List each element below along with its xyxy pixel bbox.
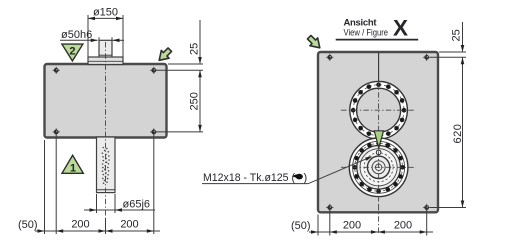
svg-text:25: 25 (451, 29, 463, 41)
svg-text:X: X (393, 16, 408, 41)
svg-text:2: 2 (69, 46, 75, 58)
svg-text:620: 620 (452, 124, 464, 144)
svg-text:(50): (50) (291, 220, 311, 232)
svg-text:200: 200 (394, 220, 412, 232)
svg-text:M12x18 - Tk.ø125 (: M12x18 - Tk.ø125 ( (203, 172, 295, 184)
svg-text:ø150: ø150 (93, 7, 118, 19)
svg-text:200: 200 (71, 219, 89, 231)
svg-text:ø65j6: ø65j6 (123, 199, 151, 211)
svg-text:View / Figure: View / Figure (344, 28, 389, 39)
svg-text:ø50h6: ø50h6 (61, 29, 92, 41)
svg-text:200: 200 (120, 219, 138, 231)
svg-text:25: 25 (189, 43, 201, 55)
svg-text:250: 250 (189, 92, 201, 110)
svg-text:200: 200 (343, 220, 361, 232)
svg-text:): ) (304, 172, 308, 184)
svg-text:1: 1 (70, 163, 76, 175)
svg-text:(50): (50) (18, 219, 38, 231)
